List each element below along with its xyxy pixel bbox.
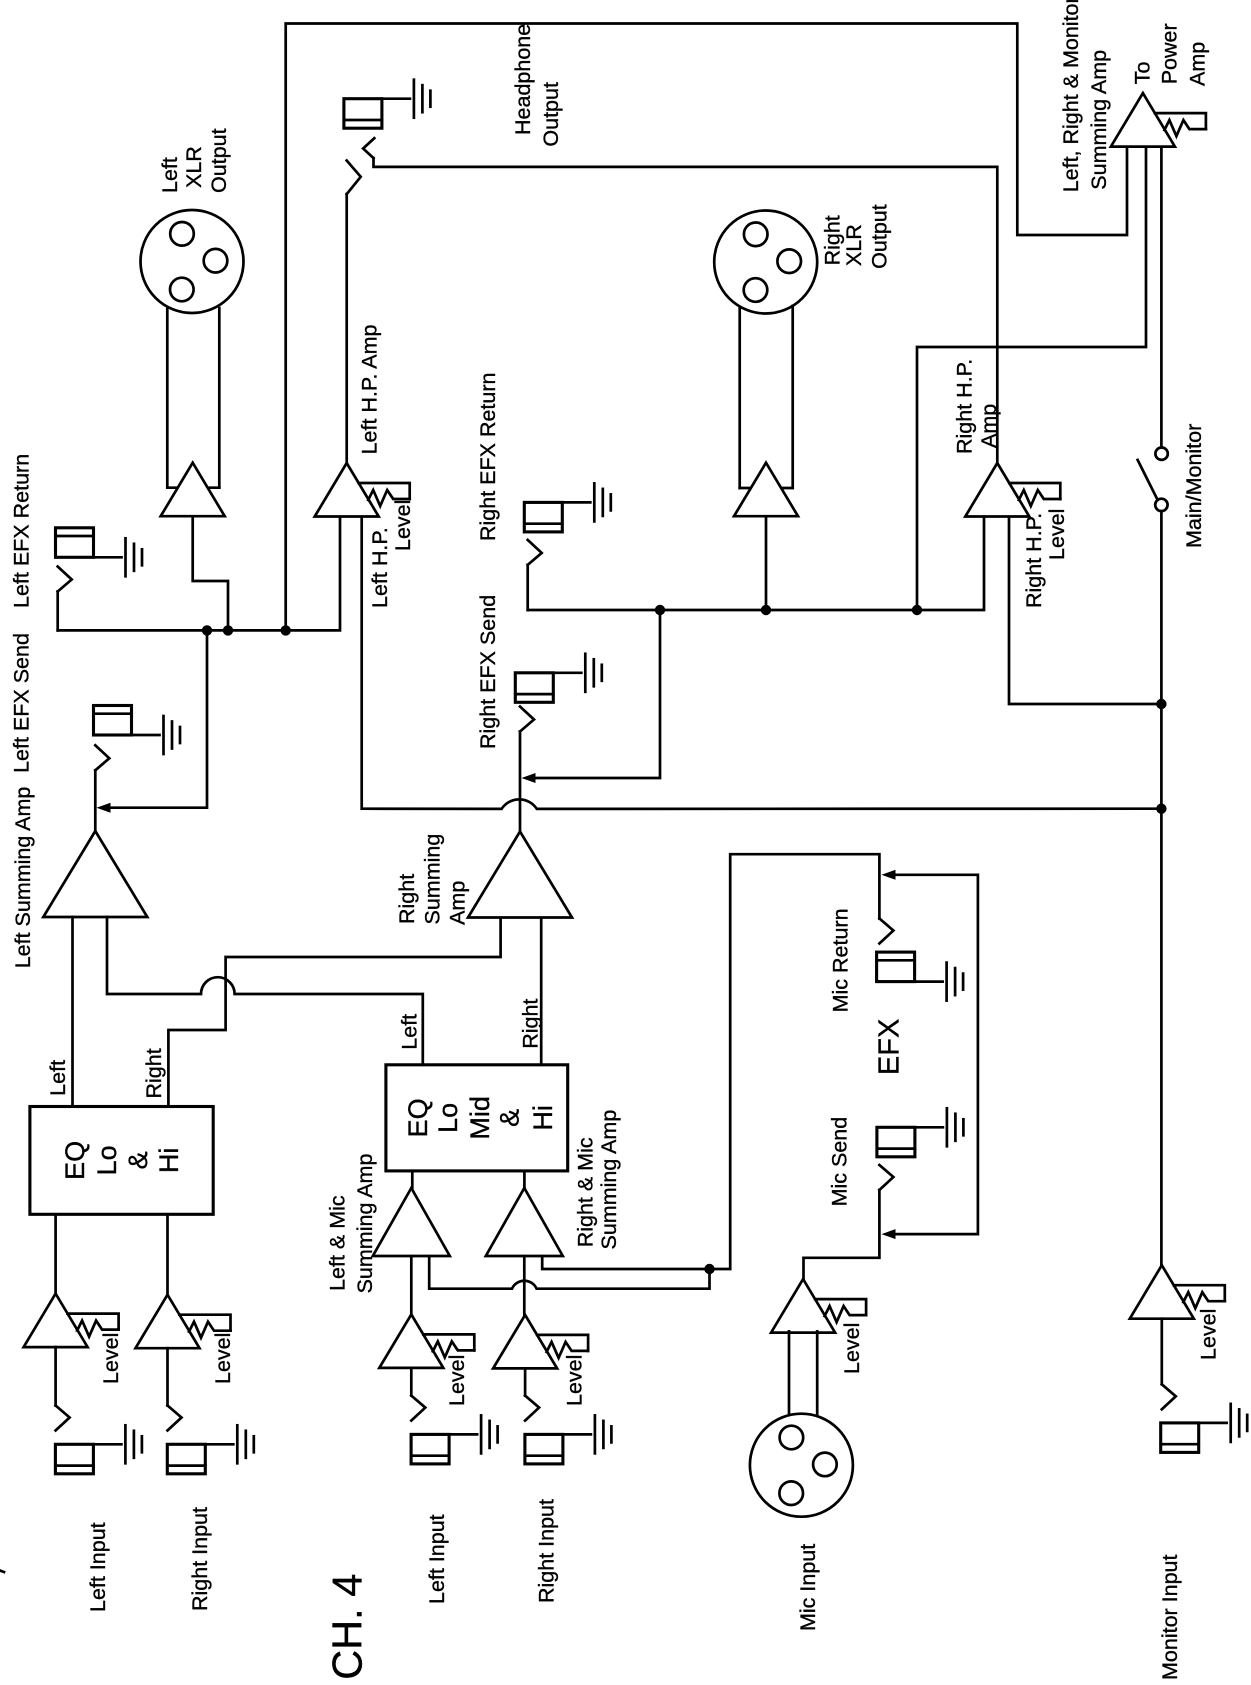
label Right EFX Send (476, 595, 500, 749)
block EQ Lo & Hi (CH1) (30, 1107, 213, 1215)
svg-text:Level: Level (99, 1333, 123, 1384)
label Monitor Input (1158, 1554, 1182, 1680)
svg-text:Left EFX Send: Left EFX Send (10, 633, 34, 773)
node junction dot left bus / XLR amp (223, 625, 233, 635)
svg-text:Summing Amp: Summing Amp (597, 1110, 621, 1250)
resistor Monitor Level (1174, 1285, 1225, 1308)
connector Right XLR Output (714, 211, 817, 314)
stray scan mark (0, 1571, 4, 1573)
svg-text:Output: Output (539, 82, 563, 147)
node junction dot mic feed (704, 1264, 714, 1274)
wire Left&Mic input 1 (410, 1256, 413, 1314)
svg-text:To: To (1131, 62, 1155, 85)
label Right & Mic Summing Amp (574, 1110, 622, 1250)
op-amp CH1 Right Input level amp (136, 1295, 200, 1349)
label Level 1 (99, 1333, 123, 1384)
resistor CH4 Right Level (537, 1335, 588, 1358)
wire EQ1 Left out to Left Summing (71, 917, 74, 1107)
wire left-channel bus to power-amp input 1 (top rail) (286, 24, 1127, 631)
connector Mic Input XLR (750, 1414, 853, 1517)
svg-text:Left & Mic: Left & Mic (325, 1195, 349, 1291)
svg-text:Left: Left (46, 1060, 70, 1096)
wire left EFX send tap with arrow (110, 630, 207, 807)
label Right Summing Amp (395, 834, 470, 925)
node junction dot left bus / EFX return (202, 625, 212, 635)
svg-text:Level: Level (1045, 509, 1069, 560)
block EQ Lo Mid & Hi (CH4) (386, 1065, 568, 1171)
jack Mic Send (877, 1108, 964, 1157)
label Headphone Output (511, 24, 563, 147)
svg-text:&: & (495, 1109, 525, 1127)
label Level 2 (211, 1333, 235, 1384)
wire CH4 Right input lead (524, 1368, 527, 1395)
jack Right EFX Return (524, 483, 611, 532)
svg-text:XLR: XLR (182, 146, 206, 188)
wire CH1 Right input lead (166, 1348, 169, 1405)
svg-text:Left Input: Left Input (86, 1522, 110, 1612)
op-amp Monitor Input level amp (1130, 1265, 1194, 1319)
svg-text:Headphone: Headphone (511, 24, 535, 135)
wire Right&Mic input 1 (523, 1256, 526, 1315)
svg-text:&: & (123, 1151, 153, 1169)
svg-text:Lo: Lo (92, 1145, 122, 1175)
plug CH4 Left Input (411, 1396, 425, 1421)
label Main/Monitor (1182, 424, 1206, 548)
plug Mic Send (879, 1165, 893, 1190)
op-amp Left H.P. Amp (315, 463, 379, 517)
switch Main/Monitor lever (1138, 460, 1157, 499)
op-amp Mic Input level amp (771, 1279, 835, 1333)
wire headphone line / Right H.P. amp output (374, 158, 998, 463)
svg-text:Level: Level (211, 1333, 235, 1384)
svg-text:Right Input: Right Input (188, 1507, 212, 1611)
wire Right H.P. amp input 2 (1009, 516, 1161, 704)
label EQ1 ports (46, 1048, 166, 1098)
op-amp Left Summing Amp (43, 831, 147, 917)
op-amp Right Summing Amp (468, 832, 572, 918)
svg-text:Summing Amp: Summing Amp (353, 1154, 377, 1294)
resistor Right H.P. Level (1009, 483, 1060, 506)
jack CH4 Right Input (525, 1415, 612, 1464)
svg-text:Left H.P. Amp: Left H.P. Amp (358, 324, 382, 454)
svg-text:Main/Monitor: Main/Monitor (1182, 424, 1206, 548)
svg-text:Right H.P.: Right H.P. (1022, 513, 1046, 608)
wire CH1 Left input lead (54, 1347, 57, 1405)
svg-text:Right EFX Return: Right EFX Return (476, 373, 500, 541)
op-amp Left XLR output driver (161, 463, 225, 517)
wire EQ2 input right (523, 1171, 526, 1188)
plug headphone right contact (363, 138, 374, 158)
jack CH4 Left Input (411, 1415, 498, 1464)
label Left H.P. Level (368, 500, 415, 608)
arrow into Left Summing output (97, 803, 111, 813)
jack Left EFX Send (94, 706, 181, 755)
plug CH1 Left Input (56, 1406, 70, 1431)
node junction dot left bus / top rail (281, 625, 291, 635)
wire Left Summing input 2 from EQ2 Left (with hop) (107, 917, 423, 1065)
svg-text:Summing: Summing (420, 834, 444, 925)
wire monitor rail lower (1160, 511, 1163, 1265)
svg-text:XLR: XLR (842, 224, 866, 266)
svg-text:Hi: Hi (154, 1148, 184, 1174)
wire EQ2 input left (411, 1171, 414, 1188)
svg-text:Power: Power (1158, 23, 1182, 84)
label Left Input CH1 (86, 1522, 110, 1612)
node junction dot right bus / monitor feed (912, 605, 922, 615)
svg-text:Amp: Amp (446, 881, 470, 925)
label EQ2 ports (397, 999, 542, 1050)
svg-text:Mic Return: Mic Return (828, 908, 852, 1012)
label EFX (873, 1019, 905, 1075)
label Left H.P. Amp (358, 324, 382, 454)
svg-text:Monitor Input: Monitor Input (1158, 1554, 1182, 1680)
label Level 4 (563, 1355, 587, 1406)
svg-text:Right EFX Send: Right EFX Send (476, 595, 500, 749)
label Left Right & Monitor Summing Amp (1059, 0, 1111, 192)
svg-text:Output: Output (868, 204, 892, 269)
label Left EFX Return (10, 454, 34, 608)
resistor CH1 Right Level (180, 1315, 231, 1338)
op-amp CH4 Right Input level amp (493, 1315, 557, 1369)
svg-text:Right & Mic: Right & Mic (574, 1137, 598, 1247)
resistor Left H.P. Level (359, 483, 410, 506)
switch Main/Monitor contact lower (1155, 499, 1167, 511)
wire Monitor input lead (1160, 1319, 1163, 1385)
jack Right EFX Send (515, 654, 602, 703)
op-amp CH1 Left Input level amp (24, 1294, 88, 1348)
svg-text:Left Input: Left Input (425, 1514, 449, 1604)
label Left & Mic Summing Amp (325, 1154, 377, 1294)
svg-text:EQ: EQ (403, 1098, 433, 1137)
node junction dot monitor line y704 (1156, 699, 1166, 709)
svg-text:Left: Left (158, 157, 182, 193)
svg-text:Level: Level (563, 1355, 587, 1406)
wire power-amp input 2 via monitor bus (917, 148, 1146, 610)
jack Left EFX Return (56, 528, 143, 577)
plug CH1 Right Input (168, 1406, 182, 1431)
svg-text:Level: Level (445, 1355, 469, 1406)
label Level 3 (445, 1355, 469, 1406)
node junction dot monitor line y808 (1156, 804, 1166, 814)
svg-text:Mic Input: Mic Input (796, 1544, 820, 1631)
label Left XLR Output (158, 128, 231, 193)
label Left EFX Send (10, 633, 34, 773)
label Left Summing Amp (11, 787, 35, 969)
svg-text:Right: Right (142, 1048, 166, 1098)
svg-text:Hi: Hi (528, 1105, 558, 1131)
wire right bus (528, 516, 984, 610)
wire EQ1 input right (166, 1214, 169, 1294)
wire Left XLR amp input (193, 516, 228, 630)
svg-text:Right H.P.: Right H.P. (952, 359, 976, 454)
label Right XLR Output (821, 204, 892, 269)
wire right EFX send tap with arrow (535, 610, 660, 778)
wire mic return feed (710, 854, 880, 1269)
svg-text:Amp: Amp (1185, 42, 1209, 86)
node junction dot right bus / EFX tap (655, 605, 665, 615)
label To Power Amp (1131, 23, 1210, 86)
wire EQ1 Right out to Right Summing (168, 918, 500, 1107)
cable Right XLR (740, 306, 793, 488)
plug CH4 Right Input (525, 1396, 539, 1421)
op-amp Left Right Monitor Summing Amp (1111, 93, 1175, 147)
wire Left EFX Return plug lead (56, 592, 59, 631)
label CH. 4 (323, 1574, 370, 1680)
plug Mic Return (879, 919, 893, 944)
label Mic Return (828, 908, 852, 1012)
wire CH4 Left input lead (410, 1368, 413, 1396)
svg-text:Left Summing Amp: Left Summing Amp (11, 787, 35, 969)
svg-text:Level: Level (391, 500, 415, 551)
arrow EFX to Mic Return (882, 870, 896, 880)
wire EFX loop (895, 875, 978, 1234)
op-amp Left & Mic Summing Amp (373, 1188, 450, 1256)
label Mic Input (796, 1544, 820, 1631)
svg-text:Amp: Amp (977, 404, 1001, 448)
svg-text:Mic Send: Mic Send (827, 1117, 851, 1207)
node junction dot right bus / XLR amp (761, 605, 771, 615)
wire Right EFX Return plug lead (526, 565, 529, 610)
jack CH1 Right Input (167, 1425, 254, 1474)
label Right Input CH4 (535, 1499, 559, 1603)
plug Right EFX Send (520, 707, 534, 732)
svg-text:Lo: Lo (433, 1103, 463, 1133)
arrow into Right Summing output (522, 773, 536, 783)
cable Left XLR (167, 308, 219, 488)
svg-text:Level: Level (840, 1323, 864, 1374)
wire left bus (58, 516, 340, 630)
wire Right XLR amp input (765, 516, 768, 610)
svg-text:Right Input: Right Input (535, 1499, 559, 1603)
svg-text:Left H.P.: Left H.P. (368, 527, 392, 608)
op-amp Right XLR output driver (734, 463, 798, 517)
wire EQ1 input left (54, 1214, 57, 1293)
wire Right Summing Amp output (519, 732, 522, 832)
resistor Mic Level (815, 1299, 866, 1322)
switch Main/Monitor contact upper (1155, 448, 1167, 460)
jack Headphone Output (344, 80, 431, 129)
svg-text:Mid: Mid (465, 1096, 495, 1140)
jack Mic Return (877, 952, 964, 1001)
resistor CH1 Left Level (68, 1314, 119, 1337)
svg-text:Right: Right (519, 999, 543, 1049)
op-amp Right & Mic Summing Amp (486, 1188, 563, 1256)
plug Right EFX Return (528, 540, 542, 565)
svg-text:Left, Right & Monitor: Left, Right & Monitor (1059, 0, 1083, 192)
svg-text:Left EFX Return: Left EFX Return (10, 454, 34, 608)
label Mic Send (827, 1117, 851, 1207)
wire Left Summing Amp output (94, 770, 97, 831)
plug Monitor Input (1162, 1384, 1176, 1409)
plug Left EFX Return (58, 567, 72, 592)
resistor CH4 Left Level (423, 1334, 474, 1357)
svg-text:EFX: EFX (873, 1019, 905, 1075)
wire Mic Send to mic amp (804, 1190, 880, 1279)
svg-text:Right: Right (395, 874, 419, 924)
svg-text:CH. 4: CH. 4 (323, 1574, 370, 1680)
plug Left EFX Send (95, 745, 109, 770)
connector Left XLR Output (141, 210, 244, 313)
wire Left H.P. level line to monitor rail (362, 516, 1162, 809)
label Right H.P. Level (1022, 509, 1069, 608)
plug headphone left contact (347, 161, 361, 195)
label EQ CH4 (403, 1096, 558, 1140)
wire monitor rail upper (1160, 148, 1163, 447)
jack Monitor Input (1161, 1404, 1248, 1453)
wire Left H.P. amp output to headphone plug (345, 194, 348, 463)
label EQ CH1 (60, 1141, 184, 1180)
label Level 5 (840, 1323, 864, 1374)
wire EQ2 Right out to Right Summing (540, 918, 543, 1065)
arrow EFX to Mic Send (882, 1229, 896, 1239)
cable Mic XLR (789, 1331, 817, 1417)
wire Right&Mic input 2 mic feed (542, 1256, 709, 1269)
svg-text:Left: Left (397, 1014, 421, 1050)
label Left Input CH4 (425, 1514, 449, 1604)
svg-text:Summing Amp: Summing Amp (1087, 50, 1111, 190)
jack CH1 Left Input (55, 1425, 141, 1474)
label Right EFX Return (476, 373, 500, 541)
label Right H.P. Amp (952, 359, 1001, 454)
label Level 6 (1197, 1309, 1221, 1360)
op-amp CH4 Left Input level amp (379, 1314, 443, 1368)
resistor power amp level (1155, 113, 1206, 136)
wire Left&Mic input 2 mic feed (with hop) (429, 1256, 709, 1289)
op-amp Right H.P. Amp (965, 463, 1029, 517)
svg-text:Level: Level (1197, 1309, 1221, 1360)
label Right Input CH1 (188, 1507, 212, 1611)
svg-text:Output: Output (207, 128, 231, 193)
svg-text:EQ: EQ (60, 1141, 90, 1180)
